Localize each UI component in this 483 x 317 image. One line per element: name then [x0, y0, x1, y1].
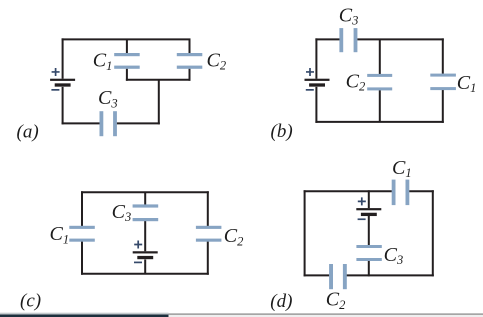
svg-text:C2: C2 — [326, 289, 346, 312]
svg-text:C3: C3 — [339, 4, 359, 27]
svg-text:(a): (a) — [17, 121, 39, 142]
svg-text:C3: C3 — [98, 87, 118, 110]
svg-text:C1: C1 — [392, 157, 412, 180]
svg-text:C1: C1 — [93, 50, 113, 73]
svg-text:(b): (b) — [271, 121, 293, 142]
svg-text:(c): (c) — [20, 290, 41, 311]
svg-text:C3: C3 — [112, 201, 132, 224]
svg-text:C1: C1 — [50, 223, 70, 246]
svg-text:C2: C2 — [224, 225, 244, 248]
svg-text:C1: C1 — [457, 72, 477, 95]
svg-text:C3: C3 — [384, 244, 404, 267]
svg-text:C2: C2 — [207, 49, 227, 72]
svg-text:C2: C2 — [346, 70, 366, 93]
svg-text:(d): (d) — [270, 291, 292, 312]
